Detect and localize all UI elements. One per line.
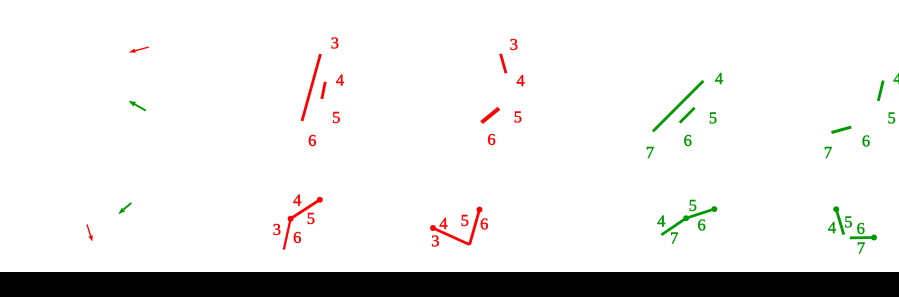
bond C5-C6 thick highlight, molecule 3 top xyxy=(482,108,500,122)
svg-text:3: 3 xyxy=(510,35,518,54)
bond C3-C6 long highlight, molecule 2 xyxy=(302,54,321,121)
svg-text:5: 5 xyxy=(709,108,717,127)
svg-text:6: 6 xyxy=(862,132,870,151)
bond C3-C4, molecule 3 bottom xyxy=(433,228,470,245)
svg-text:6: 6 xyxy=(684,131,692,150)
node C4, molecule 2 bottom xyxy=(288,216,294,222)
svg-text:6: 6 xyxy=(857,219,865,238)
bond C3-C4 highlight, molecule 5 top xyxy=(878,81,883,101)
svg-text:5: 5 xyxy=(887,109,895,128)
bond C7 highlight, molecule 5 top xyxy=(832,127,852,132)
arrow red to C4 of cholesterol xyxy=(87,224,93,241)
svg-text:7: 7 xyxy=(857,239,865,258)
svg-text:7: 7 xyxy=(646,143,654,162)
bond C4-C7 long highlight, molecule 4 top xyxy=(653,81,704,131)
svg-text:7: 7 xyxy=(824,143,832,162)
svg-text:7: 7 xyxy=(670,229,678,248)
svg-text:5: 5 xyxy=(332,108,340,127)
svg-text:6: 6 xyxy=(697,216,705,235)
node C5, molecule 2 bottom xyxy=(317,197,323,203)
svg-text:4: 4 xyxy=(657,211,665,230)
svg-text:4: 4 xyxy=(715,69,723,88)
bond C6-C5, molecule 4 bottom xyxy=(686,209,714,218)
bond C3-C4 highlight, molecule 3 top xyxy=(501,54,506,73)
svg-text:3: 3 xyxy=(273,220,281,239)
svg-text:6: 6 xyxy=(308,131,316,150)
svg-text:4: 4 xyxy=(516,71,524,90)
bond double-bond stroke, molecule 2 xyxy=(322,82,326,99)
svg-text:4: 4 xyxy=(893,69,899,88)
node C7, molecule 5 bottom xyxy=(871,235,877,241)
arrow red to C7 of cholesterol xyxy=(129,47,149,53)
node C4, molecule 5 bottom xyxy=(833,206,839,212)
bond C4-C3, molecule 2 bottom xyxy=(284,219,291,250)
svg-text:3: 3 xyxy=(331,33,339,52)
bond C5-C4, molecule 2 bottom xyxy=(291,200,320,219)
svg-text:5: 5 xyxy=(307,209,315,228)
bond C6-C7, molecule 5 bottom xyxy=(850,236,874,239)
svg-text:6: 6 xyxy=(487,130,495,149)
node C6, molecule 4 bottom xyxy=(683,215,689,221)
black caption band xyxy=(0,272,899,297)
svg-text:5: 5 xyxy=(514,108,522,127)
node C5, molecule 4 bottom xyxy=(711,206,717,212)
bond C4-C5, molecule 5 bottom xyxy=(836,209,844,234)
svg-text:4: 4 xyxy=(439,214,447,233)
arrow green to C5-C6 of cholesterol xyxy=(129,101,146,111)
svg-text:4: 4 xyxy=(828,218,836,237)
node C3, molecule 3 bottom xyxy=(430,225,436,231)
svg-text:3: 3 xyxy=(431,232,439,251)
bond double-bond stroke, molecule 4 top xyxy=(680,108,695,123)
svg-text:5: 5 xyxy=(844,212,852,231)
bond C4-C5, molecule 3 bottom xyxy=(470,210,480,245)
svg-text:5: 5 xyxy=(689,196,697,215)
svg-text:6: 6 xyxy=(480,214,488,233)
bond C7-C6, molecule 4 bottom xyxy=(661,218,686,235)
svg-text:6: 6 xyxy=(293,228,301,247)
svg-text:4: 4 xyxy=(293,190,301,209)
svg-text:4: 4 xyxy=(336,71,344,90)
arrow green to ring A of cholesterol xyxy=(118,203,131,214)
svg-text:5: 5 xyxy=(461,211,469,230)
node C5, molecule 3 bottom xyxy=(477,207,483,213)
